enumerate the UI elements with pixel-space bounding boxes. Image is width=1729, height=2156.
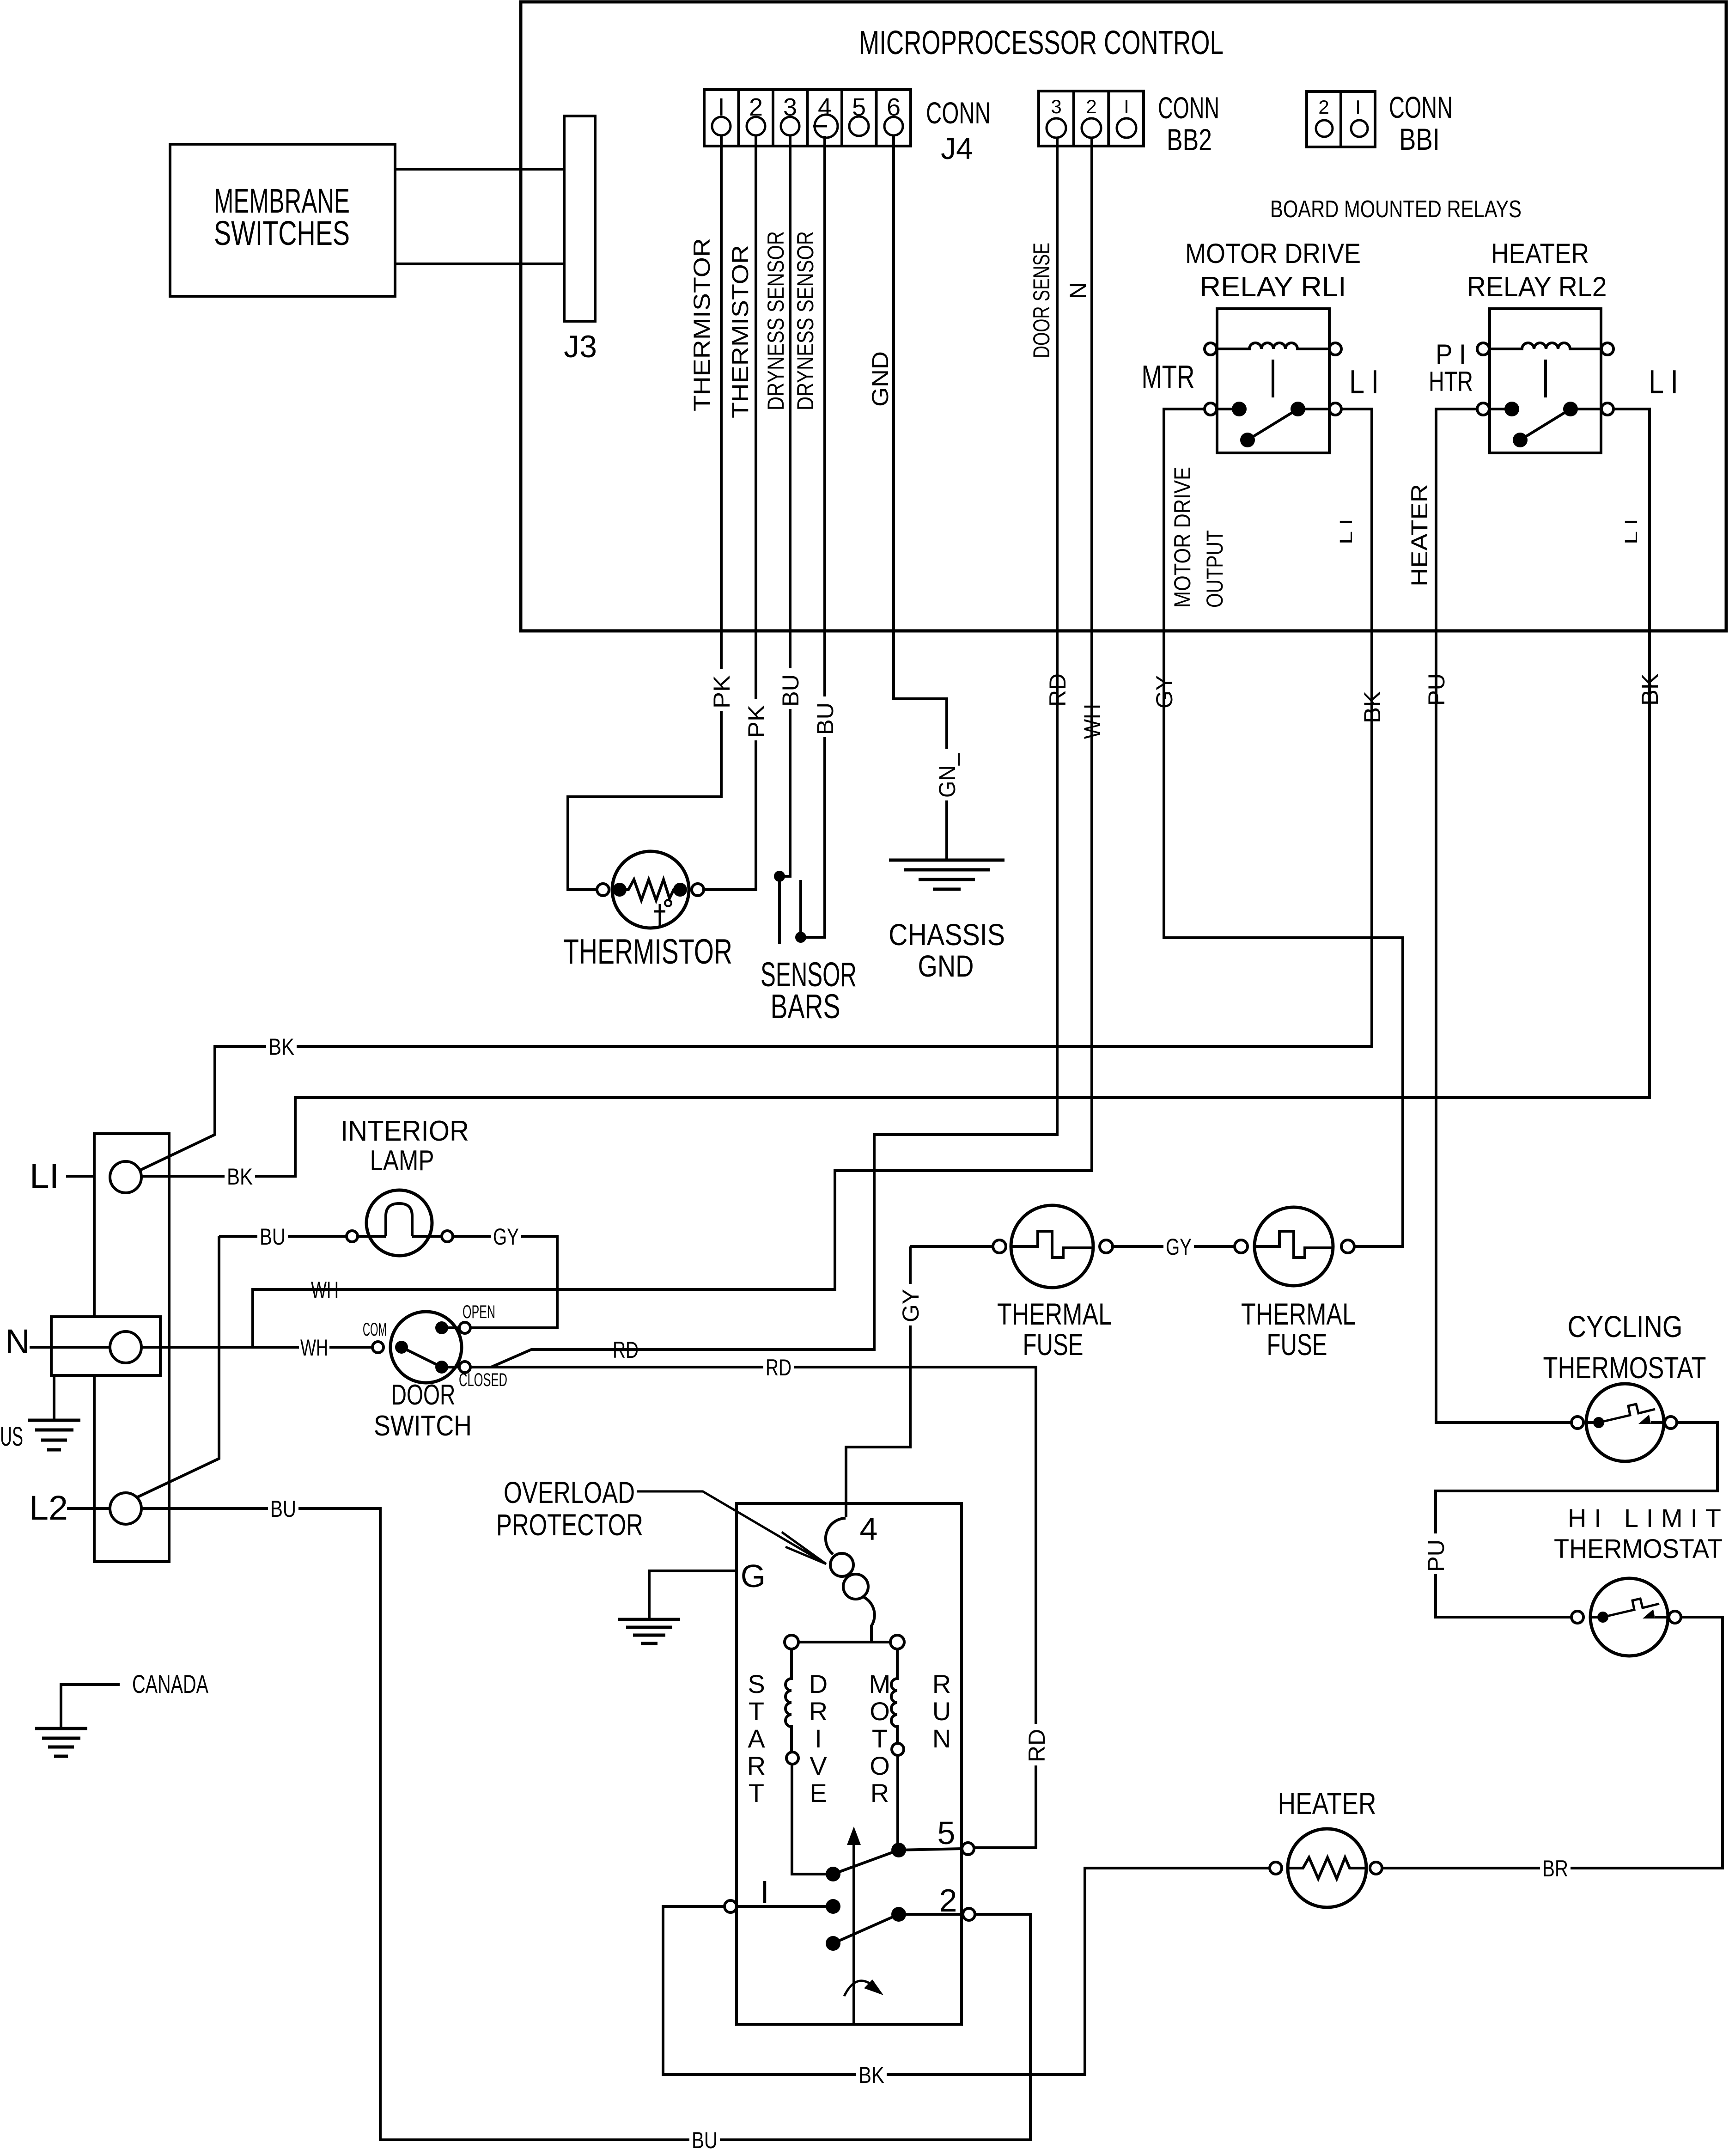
svg-text:INTERIOR: INTERIOR xyxy=(341,1115,469,1147)
label GY rl1 wire xyxy=(1151,669,1177,711)
connector BB2 cell dividers xyxy=(1074,91,1109,146)
motor ground wire xyxy=(649,1571,737,1619)
svg-text:T: T xyxy=(749,1778,764,1808)
label GY between fuses xyxy=(1163,1234,1194,1260)
wire start winding to contact xyxy=(792,1764,833,1874)
label RD doorsense wire xyxy=(1044,667,1071,709)
sensor bar right junction dot xyxy=(795,932,806,943)
svg-text:CYCLING: CYCLING xyxy=(1568,1309,1683,1344)
cycling thermostat contact dot xyxy=(1593,1417,1604,1428)
svg-text:BR: BR xyxy=(1542,1856,1568,1881)
door switch COM contact xyxy=(395,1341,408,1354)
label START vertical xyxy=(747,1669,766,1808)
svg-text:PK: PK xyxy=(743,705,769,738)
neutral block xyxy=(51,1317,160,1375)
svg-text:THERMAL: THERMAL xyxy=(1241,1297,1356,1331)
svg-text:R: R xyxy=(871,1778,889,1808)
ground CANADA xyxy=(61,1685,120,1728)
label WH on N wire xyxy=(299,1334,329,1361)
svg-text:GN_: GN_ xyxy=(934,753,960,798)
svg-text:R: R xyxy=(932,1669,951,1698)
thermistor resistor element xyxy=(621,880,680,900)
svg-text:OPEN: OPEN xyxy=(463,1302,495,1322)
wire fuse1 to fuse2 (GY) xyxy=(1113,1245,1235,1248)
svg-text:R: R xyxy=(809,1697,828,1726)
sensor bar left junction dot xyxy=(774,871,785,882)
svg-text:MTR: MTR xyxy=(1142,359,1195,395)
svg-text:4: 4 xyxy=(860,1511,878,1547)
svg-text:BK: BK xyxy=(858,2062,884,2088)
svg-text:RELAY RL2: RELAY RL2 xyxy=(1467,271,1607,302)
svg-text:HEATER: HEATER xyxy=(1278,1786,1376,1820)
overload leader arrow xyxy=(637,1491,826,1564)
relay RL2 switch contacts xyxy=(1490,408,1512,410)
junction bar terminals xyxy=(785,1635,798,1649)
label MOTOR vertical xyxy=(869,1669,891,1808)
svg-text:GY: GY xyxy=(898,1289,924,1322)
wire hi-limit to heater (BR) xyxy=(1382,1617,1723,1868)
overload protector arc lower xyxy=(863,1597,875,1642)
svg-text:HEATER: HEATER xyxy=(1491,238,1589,269)
svg-text:THERMISTOR: THERMISTOR xyxy=(563,932,732,971)
svg-text:BU: BU xyxy=(692,2127,718,2153)
thermistor RT1 body xyxy=(612,851,689,928)
lead L2 label to terminal xyxy=(67,1507,110,1510)
wire lamp internal left xyxy=(358,1235,386,1238)
svg-text:S: S xyxy=(748,1669,765,1698)
svg-text:CLOSED: CLOSED xyxy=(459,1370,507,1390)
overload protector arc upper xyxy=(826,1518,846,1554)
svg-text:GND: GND xyxy=(918,949,974,983)
svg-text:N: N xyxy=(1065,282,1091,299)
svg-text:OVERLOAD: OVERLOAD xyxy=(504,1475,635,1509)
label BU on bottom wire xyxy=(689,2127,720,2153)
svg-text:OUTPUT: OUTPUT xyxy=(1202,530,1228,608)
svg-text:M: M xyxy=(869,1669,891,1698)
svg-text:U: U xyxy=(932,1697,951,1726)
hi-limit lever xyxy=(1603,1599,1659,1617)
svg-text:BK: BK xyxy=(227,1164,253,1190)
thermal fuse F1 terminals xyxy=(993,1240,1006,1253)
wire motor terminal 1 to heater (BK) xyxy=(663,1868,1270,2075)
wire membrane to J3 lower xyxy=(395,263,564,265)
connector BB1 body xyxy=(1307,92,1375,147)
svg-text:BB2: BB2 xyxy=(1167,122,1212,157)
cycling thermostat baseline xyxy=(1586,1421,1665,1424)
interior lamp DS1 xyxy=(366,1190,432,1256)
svg-text:BU: BU xyxy=(270,1496,296,1522)
svg-text:T: T xyxy=(872,1724,888,1753)
svg-text:US: US xyxy=(0,1422,23,1452)
svg-text:L I: L I xyxy=(1622,519,1641,544)
relay RL1 coil xyxy=(1217,343,1329,349)
label BK rl1 wire xyxy=(1358,685,1385,726)
wire J4 pin6 chassis ground (GN) xyxy=(894,136,947,860)
door switch COM terminal xyxy=(372,1342,384,1353)
svg-text:BK: BK xyxy=(268,1034,294,1060)
relay RL1 coil terminals xyxy=(1205,343,1217,355)
thermal fuse F2 terminals xyxy=(1235,1240,1248,1253)
cycling thermostat lever xyxy=(1599,1404,1655,1423)
wire lamp feed BU xyxy=(219,1235,347,1238)
label BK on horizontal 2545 xyxy=(225,1163,255,1190)
connector BB2 body xyxy=(1039,91,1144,146)
wire cycling to hi-limit (PU) xyxy=(1436,1423,1717,1617)
svg-text:FUSE: FUSE xyxy=(1023,1327,1084,1362)
svg-text:L I: L I xyxy=(1337,519,1356,544)
svg-text:2: 2 xyxy=(939,1882,957,1918)
svg-text:L2: L2 xyxy=(29,1489,68,1527)
hi-limit contact dot xyxy=(1597,1612,1608,1623)
sensor bar right xyxy=(799,880,802,937)
door switch OPEN contact xyxy=(435,1321,448,1334)
label WH on upper neutral wire xyxy=(310,1276,340,1303)
relay RL1 switch contacts xyxy=(1217,408,1239,410)
svg-text:PU: PU xyxy=(1423,1539,1449,1572)
motor terminal 5 xyxy=(962,1843,974,1855)
label BR xyxy=(1540,1855,1571,1881)
hi-limit thermostat body xyxy=(1590,1578,1668,1656)
pin 4 key mark xyxy=(813,125,827,128)
svg-text:E: E xyxy=(810,1778,827,1808)
svg-text:HTR: HTR xyxy=(1429,366,1473,397)
svg-text:J4: J4 xyxy=(941,131,973,165)
wire RL2 PI HTR to cycling thermostat (PU) xyxy=(1436,409,1571,1423)
label WH neutral wire xyxy=(1078,699,1105,741)
label RD on jog line A xyxy=(610,1337,641,1363)
label GY on motor feed xyxy=(897,1284,924,1325)
svg-text:GND: GND xyxy=(867,351,893,407)
svg-text:SWITCH: SWITCH xyxy=(374,1410,472,1442)
label PK wire2 xyxy=(743,699,769,740)
label BU lamp xyxy=(257,1223,288,1250)
heater terminals xyxy=(1270,1862,1282,1874)
terminal N xyxy=(110,1331,141,1363)
svg-text:MOTOR DRIVE: MOTOR DRIVE xyxy=(1169,467,1195,608)
svg-text:LAMP: LAMP xyxy=(370,1145,434,1177)
svg-text:N: N xyxy=(5,1322,30,1361)
pin circles BB1 xyxy=(1316,120,1368,137)
svg-text:DOOR: DOOR xyxy=(391,1379,456,1411)
svg-text:I: I xyxy=(760,1874,769,1910)
label BU wire3 xyxy=(777,668,804,709)
svg-text:DRYNESS SENSOR: DRYNESS SENSOR xyxy=(763,231,789,410)
svg-text:D: D xyxy=(809,1669,828,1698)
terminal block TB1 xyxy=(94,1134,169,1562)
relay RL2 coil xyxy=(1490,343,1601,349)
pin circles BB2 xyxy=(1047,118,1136,138)
svg-text:FUSE: FUSE xyxy=(1267,1327,1327,1362)
relay RL2 body xyxy=(1490,309,1601,453)
svg-text:T: T xyxy=(749,1697,764,1726)
door switch CLOSED contact xyxy=(435,1361,448,1374)
start winding lower terminal xyxy=(786,1752,798,1764)
svg-text:MOTOR DRIVE: MOTOR DRIVE xyxy=(1185,238,1361,269)
relay RL1 switch terminals xyxy=(1205,403,1217,415)
svg-text:THERMOSTAT: THERMOSTAT xyxy=(1554,1534,1723,1564)
svg-text:J3: J3 xyxy=(564,329,597,364)
svg-text:A: A xyxy=(748,1724,765,1753)
svg-text:L I: L I xyxy=(1349,364,1379,401)
label BU on L2 wire xyxy=(268,1496,298,1522)
hi-limit contact triangle xyxy=(1643,1609,1655,1619)
wire run winding to contact 5 xyxy=(896,1755,899,1850)
sensor bar left xyxy=(778,876,781,944)
relay RL2 switch terminals xyxy=(1477,403,1489,415)
thermal fuse F2 body xyxy=(1254,1207,1333,1286)
label DRIVE vertical xyxy=(809,1669,828,1808)
relay RL1 body xyxy=(1217,309,1329,453)
cycling thermostat contact triangle xyxy=(1638,1415,1651,1424)
svg-text:MICROPROCESSOR CONTROL: MICROPROCESSOR CONTROL xyxy=(859,24,1224,61)
label PU rotated between thermostats xyxy=(1422,1533,1449,1574)
motor terminal 2 xyxy=(963,1908,975,1920)
svg-text:R: R xyxy=(747,1751,766,1780)
svg-text:LI: LI xyxy=(30,1157,59,1195)
terminal L1 xyxy=(110,1161,141,1193)
svg-text:5: 5 xyxy=(938,1815,956,1851)
label GN- wire6 xyxy=(933,749,960,800)
motor winding junction bar xyxy=(798,1641,890,1643)
rotation arrow xyxy=(844,1981,877,1996)
wire BB2 pin2 neutral (WH) xyxy=(253,138,1092,1347)
wire fuse1 feed xyxy=(910,1245,993,1248)
svg-text:THERMISTOR: THERMISTOR xyxy=(689,238,715,411)
label PU rl2 wire xyxy=(1423,667,1449,708)
thermistor contact dots xyxy=(613,883,627,897)
hi-limit terminals xyxy=(1571,1611,1583,1623)
svg-text:3: 3 xyxy=(1051,96,1061,117)
wire J4 pin1 to thermistor (PK) xyxy=(568,136,721,890)
svg-text:O: O xyxy=(870,1697,890,1726)
wire L2 to motor 2 (BU) xyxy=(141,1509,1030,2140)
label RUN vertical xyxy=(932,1669,951,1753)
wire terminal 1 to contact xyxy=(737,1905,826,1908)
wire N to door switch COM (WH) xyxy=(30,1346,372,1349)
svg-text:RD: RD xyxy=(766,1355,791,1380)
svg-text:COM: COM xyxy=(363,1319,387,1340)
svg-text:BBI: BBI xyxy=(1399,122,1440,156)
svg-text:GY: GY xyxy=(1166,1234,1192,1260)
svg-text:THERMISTOR: THERMISTOR xyxy=(727,245,753,418)
svg-text:I: I xyxy=(1124,96,1129,117)
label GY lamp xyxy=(491,1223,521,1250)
wire RL1 MTR to thermal fuse (GY) xyxy=(1164,409,1403,1246)
svg-text:DOOR SENSE: DOOR SENSE xyxy=(1029,243,1054,358)
wire BB2 pin3 door sense (RD) xyxy=(470,138,1057,1367)
cycling thermostat body xyxy=(1586,1384,1664,1461)
wire contact 5 to terminal xyxy=(899,1849,962,1850)
motor M1 body xyxy=(737,1503,962,2024)
svg-text:BOARD MOUNTED RELAYS: BOARD MOUNTED RELAYS xyxy=(1270,196,1522,223)
svg-text:RELAY RLI: RELAY RLI xyxy=(1200,271,1346,302)
centrifugal actuator arrow xyxy=(852,1838,855,2024)
door switch CLOSED terminal xyxy=(459,1362,470,1373)
thermal fuse F1 body xyxy=(1011,1205,1093,1288)
relay RL2 coil terminals xyxy=(1477,343,1489,355)
run winding xyxy=(891,1649,897,1743)
cycling thermostat terminals xyxy=(1571,1417,1583,1429)
terminal L2 xyxy=(110,1493,141,1524)
svg-text:CONN: CONN xyxy=(926,96,991,130)
svg-text:WH: WH xyxy=(300,1335,328,1361)
run winding lower terminal xyxy=(892,1743,904,1755)
wire contact 2 to terminal xyxy=(899,1913,963,1916)
svg-text:BU: BU xyxy=(778,674,804,707)
svg-text:CONN: CONN xyxy=(1158,91,1219,125)
chassis ground symbol xyxy=(889,860,1005,889)
label PK wire1 xyxy=(708,669,735,711)
wire OPEN contact to terminal xyxy=(442,1326,459,1329)
lamp filament xyxy=(386,1203,412,1236)
motor terminal 1 xyxy=(724,1900,737,1912)
wire thermal fuse to overload (GY) xyxy=(846,1246,910,1517)
motor ground symbol xyxy=(618,1619,680,1643)
svg-text:P I: P I xyxy=(1436,339,1466,370)
svg-text:G: G xyxy=(741,1558,766,1594)
svg-text:2: 2 xyxy=(1086,96,1096,117)
svg-text:SWITCHES: SWITCHES xyxy=(214,214,350,252)
thermal fuse F1 element xyxy=(1012,1231,1092,1258)
svg-text:THERMOSTAT: THERMOSTAT xyxy=(1543,1350,1706,1385)
connector BB1 cell divider xyxy=(1339,92,1342,147)
wire CLOSED contact to terminal xyxy=(442,1366,459,1368)
svg-text:CONN: CONN xyxy=(1389,90,1453,124)
svg-text:BU: BU xyxy=(260,1224,286,1250)
svg-text:N: N xyxy=(932,1724,951,1753)
wire RL2 L1 to terminal L1 (BK) xyxy=(141,409,1650,1176)
svg-text:DRYNESS SENSOR: DRYNESS SENSOR xyxy=(792,231,818,410)
svg-text:I: I xyxy=(815,1724,822,1753)
door switch OPEN terminal xyxy=(459,1322,470,1333)
overload protector contact circles xyxy=(830,1553,853,1576)
wire membrane to J3 upper xyxy=(395,168,564,171)
lamp terminals xyxy=(347,1231,358,1242)
motor switch lever 5 xyxy=(833,1850,899,1874)
connector J3 xyxy=(564,116,595,321)
thermal fuse F2 element xyxy=(1254,1231,1334,1258)
microprocessor control board U1 outline xyxy=(521,2,1726,631)
label RD on line B xyxy=(763,1354,794,1380)
relay RL2 actuator xyxy=(1544,360,1547,397)
membrane switches block S1 xyxy=(170,144,395,296)
door switch S2 body xyxy=(390,1312,462,1383)
svg-text:I: I xyxy=(1355,96,1361,118)
svg-text:V: V xyxy=(810,1751,827,1780)
connector J4 cell dividers xyxy=(739,90,877,146)
thermistor t symbol xyxy=(654,904,665,926)
wire J4 pin3 to sensor bar (BU) xyxy=(779,136,790,876)
motor switch lever 2 xyxy=(833,1914,899,1943)
svg-text:CANADA: CANADA xyxy=(132,1669,208,1698)
wire J4 pin4 to sensor bar (BU) xyxy=(801,136,825,937)
svg-text:2: 2 xyxy=(1318,96,1329,118)
label RD rotated on motor 5 wire xyxy=(1023,1724,1050,1765)
hi-limit baseline xyxy=(1590,1616,1669,1619)
svg-text:BARS: BARS xyxy=(771,987,840,1026)
svg-text:PK: PK xyxy=(709,675,735,708)
ground US xyxy=(53,1375,55,1420)
wire lamp to door switch OPEN (GY) xyxy=(453,1236,557,1328)
label BK rl2 wire xyxy=(1636,667,1663,708)
svg-text:THERMAL: THERMAL xyxy=(997,1297,1112,1331)
heater element xyxy=(1289,1857,1365,1879)
wire door switch CLOSED to motor 5 (RD) xyxy=(470,1367,1036,1848)
svg-text:BU: BU xyxy=(812,702,838,735)
door switch lever xyxy=(402,1347,442,1367)
svg-text:L I: L I xyxy=(1649,364,1678,401)
wire lamp internal right xyxy=(412,1235,442,1238)
svg-text:GY: GY xyxy=(493,1224,519,1250)
label BU wire4 xyxy=(811,696,838,737)
svg-text:PROTECTOR: PROTECTOR xyxy=(496,1508,643,1542)
relay RL1 actuator xyxy=(1272,360,1274,397)
label BK on motor bottom wire xyxy=(856,2062,887,2088)
wire L2 to lamp feed (BU) riser xyxy=(137,1236,219,1497)
start winding xyxy=(785,1649,791,1752)
wire J4 pin2 to thermistor (PK) xyxy=(704,136,756,890)
svg-text:HEATER: HEATER xyxy=(1406,484,1432,586)
heater HTR1 body xyxy=(1288,1829,1366,1907)
svg-text:O: O xyxy=(870,1751,890,1780)
svg-text:RD: RD xyxy=(1024,1729,1050,1762)
lead L1 label to block xyxy=(66,1175,94,1178)
connector J4 body xyxy=(704,90,911,146)
label BK on horizontal 2264 xyxy=(266,1033,297,1060)
pin circles J4 xyxy=(712,115,903,138)
thermistor terminals xyxy=(597,884,609,896)
wire RL1 L1 to terminal L1 (BK) xyxy=(140,409,1372,1170)
svg-text:CHASSIS: CHASSIS xyxy=(889,917,1005,952)
